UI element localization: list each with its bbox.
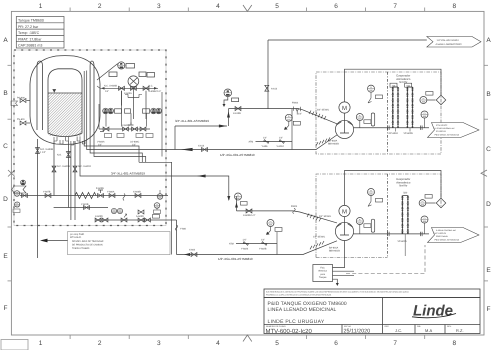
svg-text:X-613: X-613 [198, 145, 205, 148]
svg-text:V-600J: V-600J [277, 145, 284, 148]
svg-text:606: 606 [369, 193, 372, 196]
svg-text:25/11/2020: 25/11/2020 [344, 328, 371, 334]
svg-text:para: para [320, 273, 325, 276]
svg-text:DIB.: DIB. [417, 325, 421, 328]
svg-text:C: C [486, 146, 491, 153]
svg-text:PMAT: 17,8bar: PMAT: 17,8bar [18, 37, 42, 41]
svg-text:P&ID TANQUE OXIGENO TM8600: P&ID TANQUE OXIGENO TM8600 [268, 301, 347, 307]
svg-text:606: 606 [287, 118, 290, 121]
svg-text:1/4": 1/4" [298, 113, 302, 116]
svg-text:M: M [342, 209, 347, 216]
svg-text:REV.: REV. [447, 325, 452, 328]
svg-text:BA-602A: BA-602A [328, 140, 338, 143]
svg-text:LINDE PLC URUGUAY: LINDE PLC URUGUAY [268, 319, 325, 325]
svg-text:BBA-602B: BBA-602B [328, 142, 339, 145]
svg-text:A: A [3, 37, 8, 44]
svg-text:606: 606 [104, 111, 107, 114]
svg-text:Tanque TM8600: Tanque TM8600 [18, 19, 44, 23]
svg-text:606: 606 [15, 194, 18, 197]
svg-text:ATM: ATM [229, 243, 234, 246]
svg-text:Y-600: Y-600 [180, 228, 187, 231]
svg-text:CAP:26881 m3: CAP:26881 m3 [18, 44, 42, 48]
svg-text:606: 606 [155, 206, 158, 209]
svg-text:DE PRODUCTO DE CAMION: DE PRODUCTO DE CAMION [72, 244, 103, 247]
svg-text:606: 606 [423, 220, 426, 223]
svg-text:ATM: ATM [249, 141, 254, 144]
svg-text:LINEA LLENADO MEDICINAL: LINEA LLENADO MEDICINAL [268, 307, 337, 313]
svg-text:TK605 A TK8600: TK605 A TK8600 [72, 247, 90, 250]
svg-text:VP-601A: VP-601A [398, 240, 408, 243]
svg-text:X-604: X-604 [189, 248, 196, 251]
svg-text:606: 606 [369, 89, 372, 92]
svg-text:3/4" SENAL: 3/4" SENAL [319, 215, 332, 218]
svg-text:580: 580 [403, 191, 408, 194]
svg-text:X-600B: X-600B [133, 191, 141, 194]
svg-text:P&ID Details: P&ID Details [436, 235, 448, 238]
svg-text:1/2" SENAL: 1/2" SENAL [313, 236, 326, 239]
svg-text:A 45mm Dist/item out: A 45mm Dist/item out [436, 229, 456, 232]
svg-text:2: 2 [98, 340, 102, 347]
svg-text:606: 606 [109, 111, 112, 114]
svg-text:5: 5 [275, 3, 279, 10]
svg-text:3: 3 [157, 340, 161, 347]
svg-text:FW04: FW04 [291, 205, 298, 208]
svg-text:1/4": 1/4" [261, 239, 265, 242]
svg-text:PROHIBIDO LA COPIA O ENTREGA D: PROHIBIDO LA COPIA O ENTREGA DE LOS MISM… [266, 294, 332, 297]
svg-text:B: B [3, 90, 7, 97]
svg-text:3/4" SENAL: 3/4" SENAL [317, 109, 330, 112]
svg-text:A: A [486, 37, 491, 44]
svg-text:Y-607B: Y-607B [43, 191, 51, 194]
svg-text:DESDE LINEA DE TRASVASE: DESDE LINEA DE TRASVASE [72, 240, 104, 243]
svg-text:Fab.: Fab. [320, 267, 325, 270]
svg-text:606: 606 [236, 197, 239, 200]
svg-text:(or otro) P&ID: (or otro) P&ID [70, 233, 85, 236]
svg-text:E: E [3, 253, 8, 260]
svg-text:N.C. X-601B: N.C. X-601B [57, 165, 70, 168]
svg-text:2: 2 [98, 3, 102, 10]
svg-text:C: C [3, 143, 8, 150]
svg-text:GP-602A: GP-602A [389, 132, 399, 135]
svg-text:3: 3 [157, 3, 161, 10]
svg-text:6: 6 [334, 340, 338, 347]
svg-text:LLENAN dist/item out: LLENAN dist/item out [435, 127, 455, 130]
svg-text:606: 606 [421, 204, 424, 207]
svg-text:MTV-06-01: MTV-06-01 [70, 236, 82, 239]
svg-text:PR: 27.2 bar: PR: 27.2 bar [18, 25, 39, 29]
svg-text:1/4": 1/4" [263, 137, 267, 140]
svg-text:1/2"-XGL-601-ASTMB819: 1/2"-XGL-601-ASTMB819 [220, 153, 255, 157]
svg-text:606: 606 [120, 66, 123, 69]
svg-text:7: 7 [393, 3, 397, 10]
svg-text:Nm³/hr: Nm³/hr [399, 81, 407, 84]
svg-text:PV-600-04: PV-600-04 [436, 130, 447, 133]
svg-text:Y-601B: Y-601B [81, 203, 89, 206]
svg-text:606: 606 [358, 222, 361, 225]
svg-text:Y-602B: Y-602B [259, 247, 267, 250]
svg-text:M: M [342, 105, 347, 112]
svg-text:VP-602B: VP-602B [404, 132, 414, 135]
svg-text:606: 606 [112, 211, 115, 214]
svg-text:X-610B: X-610B [233, 112, 241, 115]
svg-text:Y-606: Y-606 [262, 145, 269, 148]
svg-text:Tanque: Tanque [319, 276, 327, 279]
svg-text:606: 606 [118, 211, 121, 214]
svg-text:8: 8 [452, 3, 456, 10]
svg-text:N.O. X-600B: N.O. X-600B [40, 148, 53, 151]
svg-text:7: 7 [393, 340, 397, 347]
svg-text:R.Z.: R.Z. [456, 328, 464, 333]
svg-text:electrica: electrica [318, 270, 327, 273]
svg-text:Linde: Linde [413, 303, 453, 320]
svg-text:PS-600: PS-600 [17, 97, 25, 100]
svg-text:LO-600C: LO-600C [130, 141, 140, 144]
svg-text:A-600D: A-600D [136, 215, 144, 218]
svg-text:606: 606 [152, 111, 155, 114]
svg-text:A-600M 1/4": A-600M 1/4" [149, 90, 162, 93]
svg-text:J.C.: J.C. [395, 328, 402, 333]
svg-text:D: D [486, 201, 491, 208]
svg-text:606: 606 [16, 204, 19, 207]
svg-text:8: 8 [452, 340, 456, 347]
svg-text:606: 606 [269, 224, 272, 227]
svg-text:1 1/2": 1 1/2" [40, 151, 46, 154]
svg-text:B: B [486, 91, 490, 98]
svg-text:E: E [486, 267, 491, 274]
svg-text:606: 606 [423, 115, 426, 118]
svg-text:MTV-600-02-Ic20: MTV-600-02-Ic20 [266, 328, 313, 335]
svg-text:1/4": 1/4" [243, 239, 247, 242]
svg-text:NUMERO DE PLANO: NUMERO DE PLANO [266, 325, 286, 328]
svg-text:Nm³/hr: Nm³/hr [399, 185, 407, 188]
svg-text:1/4"-PAL-602-SS304: 1/4"-PAL-602-SS304 [437, 39, 460, 42]
svg-text:1/4": 1/4" [279, 137, 283, 140]
svg-text:N.C. X-601D: N.C. X-601D [78, 165, 91, 168]
svg-text:4: 4 [216, 340, 220, 347]
svg-text:FW04: FW04 [292, 102, 299, 105]
svg-text:PS-601: PS-601 [17, 118, 25, 121]
svg-text:X-600D: X-600D [95, 215, 103, 218]
svg-text:MTV-600-05: MTV-600-05 [435, 232, 447, 235]
svg-text:606: 606 [21, 182, 24, 185]
svg-text:1: 1 [39, 3, 43, 10]
svg-text:X-600B 1/4": X-600B 1/4" [243, 214, 255, 217]
svg-text:6: 6 [334, 3, 338, 10]
svg-text:1/4": 1/4" [105, 90, 109, 93]
svg-text:SUS RESERVADOS EL DERECHO DE P: SUS RESERVADOS EL DERECHO DE PROPIEDAD S… [266, 290, 409, 293]
svg-text:F: F [4, 305, 8, 312]
svg-text:BA-601A: BA-601A [329, 247, 339, 250]
svg-text:5: 5 [275, 340, 279, 347]
svg-text:606: 606 [422, 101, 425, 104]
svg-text:A-612: A-612 [271, 88, 278, 91]
svg-text:V-600A: V-600A [97, 141, 105, 144]
svg-text:3/4"-XLL-601-ASTMB819: 3/4"-XLL-601-ASTMB819 [111, 171, 145, 175]
svg-text:606: 606 [358, 118, 361, 121]
svg-text:Temp: -185'C: Temp: -185'C [18, 31, 40, 35]
svg-text:E-600B: E-600B [96, 187, 104, 190]
svg-text:F: F [487, 306, 491, 313]
svg-text:606: 606 [226, 94, 229, 97]
svg-text:N.O.: N.O. [57, 154, 62, 157]
svg-text:X-600S: X-600S [124, 92, 132, 95]
svg-text:606: 606 [157, 111, 160, 114]
svg-text:606: 606 [158, 197, 161, 200]
svg-text:3/4"-XLL-601-ASTMB819: 3/4"-XLL-601-ASTMB819 [175, 119, 209, 123]
svg-text:N.C. X-606B: N.C. X-606B [104, 85, 117, 88]
svg-text:Analisis LABORATORIO: Analisis LABORATORIO [436, 43, 462, 46]
svg-text:BBA-601B: BBA-601B [329, 249, 340, 252]
svg-text:4: 4 [216, 3, 220, 10]
svg-text:P&ID Details O2 Medicinal: P&ID Details O2 Medicinal [435, 133, 460, 136]
svg-text:D: D [3, 196, 8, 203]
svg-text:M.A: M.A [425, 328, 432, 333]
svg-text:1/2"-XGL-601-ASTMB819: 1/2"-XGL-601-ASTMB819 [218, 257, 253, 261]
svg-text:REP.: REP. [385, 325, 390, 328]
svg-text:Y-6023: Y-6023 [241, 247, 249, 250]
svg-text:P&ID Details O2 Medicinal: P&ID Details O2 Medicinal [435, 238, 460, 241]
svg-text:Y-600A: Y-600A [107, 191, 115, 194]
svg-text:1: 1 [39, 340, 43, 347]
svg-text:PTW PE/O2: PTW PE/O2 [436, 124, 448, 127]
svg-text:N.C.: N.C. [149, 85, 154, 88]
svg-text:V-600B: V-600B [122, 124, 130, 127]
